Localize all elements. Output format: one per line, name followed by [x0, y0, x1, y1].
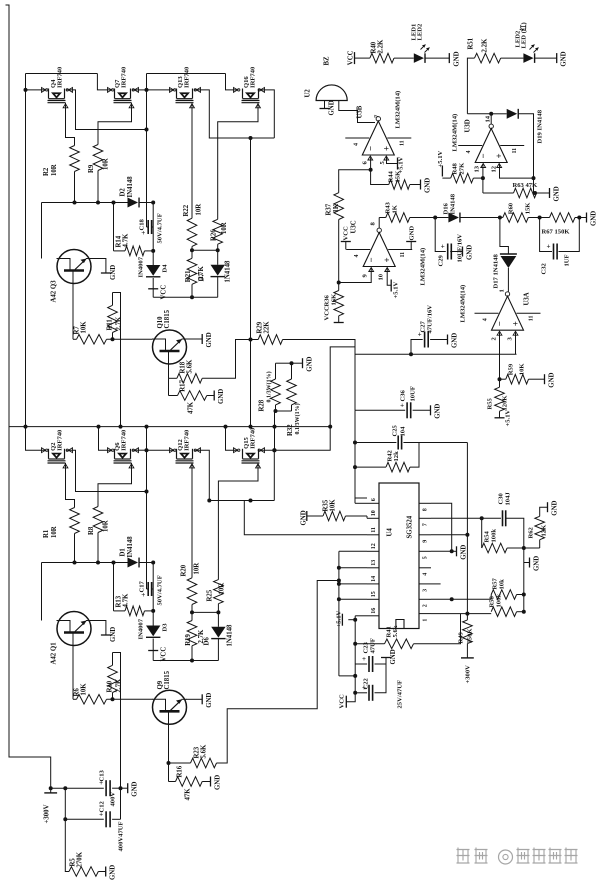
- svg-text:U3D: U3D: [465, 119, 472, 132]
- svg-text:R35: R35: [323, 499, 330, 511]
- resistor R1: [70, 508, 80, 534]
- svg-text:R62: R62: [528, 526, 535, 538]
- svg-text:GND: GND: [452, 333, 459, 348]
- resistor R35: [323, 511, 346, 521]
- svg-text:104: 104: [400, 426, 407, 437]
- svg-text:R26: R26: [211, 229, 218, 241]
- svg-text:C29: C29: [438, 254, 445, 266]
- resistor R25: [214, 580, 224, 604]
- wire pin8 gnd: [431, 503, 452, 551]
- svg-text:GND: GND: [301, 510, 308, 525]
- svg-text:C27: C27: [420, 320, 427, 332]
- diode D1: [128, 558, 139, 568]
- svg-text:10R: 10R: [221, 222, 228, 234]
- svg-text:GND: GND: [215, 775, 222, 790]
- wire pin5 gnd: [431, 550, 452, 552]
- op-amp U3B: [362, 121, 394, 155]
- ground R62: [540, 507, 548, 516]
- ground LED1: [448, 53, 450, 63]
- svg-text:D2: D2: [120, 188, 127, 197]
- wire Q12 gate: [191, 463, 193, 468]
- svg-text:C17: C17: [139, 580, 146, 592]
- svg-text:11: 11: [371, 527, 377, 533]
- svg-text:10R: 10R: [196, 204, 203, 216]
- wire U3A pin2: [499, 332, 501, 379]
- wire Q13 gate: [191, 103, 193, 109]
- power +5.1V R55: [499, 411, 501, 418]
- wire +300V node: [51, 787, 104, 789]
- svg-text:C30: C30: [498, 492, 505, 504]
- wire rail B to sense: [250, 138, 252, 340]
- svg-text:R57: R57: [492, 577, 499, 589]
- svg-text:GND: GND: [110, 627, 117, 642]
- svg-text:IRF740: IRF740: [184, 66, 191, 88]
- svg-text:R60: R60: [508, 202, 515, 214]
- svg-text:IRF740: IRF740: [184, 429, 191, 451]
- power +300V: [49, 786, 53, 790]
- svg-text:10K: 10K: [81, 321, 88, 334]
- svg-text:IRF740: IRF740: [57, 429, 64, 451]
- svg-text:27K: 27K: [459, 162, 466, 175]
- svg-text:12: 12: [371, 543, 377, 549]
- svg-text:10R: 10R: [219, 583, 226, 595]
- pin 8 U4: [419, 502, 431, 504]
- svg-text:10K: 10K: [81, 683, 88, 696]
- svg-text:4: 4: [423, 573, 429, 576]
- ground Q1: [101, 634, 111, 636]
- transistor Q2: [48, 449, 66, 463]
- power VCC R36: [338, 316, 340, 323]
- wire lower drain node ext: [209, 500, 225, 502]
- wire bootstrap rail: [152, 203, 154, 266]
- svg-text:IRF740: IRF740: [250, 427, 257, 449]
- svg-text:50V/4.7UF: 50V/4.7UF: [157, 575, 164, 605]
- svg-text:GND: GND: [453, 51, 460, 66]
- svg-text:GND: GND: [390, 649, 397, 664]
- svg-text:9: 9: [423, 540, 429, 543]
- svg-text:+: +: [400, 401, 404, 409]
- wire shunt to sense: [275, 347, 356, 450]
- svg-text:400V: 400V: [110, 792, 117, 807]
- wire Q1 emitter to gnd: [91, 621, 106, 636]
- svg-text:+: +: [511, 321, 521, 326]
- ground R5: [105, 867, 107, 877]
- svg-text:IRF740: IRF740: [121, 66, 128, 88]
- svg-text:D16: D16: [443, 202, 450, 214]
- wire U2 to U3B out: [339, 101, 375, 123]
- svg-text:R10: R10: [107, 680, 114, 692]
- capacitor C36: [355, 409, 405, 411]
- svg-text:R9: R9: [88, 164, 95, 173]
- transistor Q9: [153, 690, 187, 724]
- wire +5.1V column: [354, 620, 356, 693]
- ground R35: [307, 515, 323, 517]
- svg-text:IRF740: IRF740: [250, 66, 257, 88]
- wire Q2 drain: [67, 450, 147, 491]
- resistor R28: [271, 379, 281, 405]
- svg-text:10: 10: [378, 273, 385, 280]
- transistor Q3: [41, 203, 43, 259]
- resistor R6: [73, 698, 77, 700]
- svg-text:R1: R1: [43, 529, 50, 538]
- wire R18 to rail B: [202, 340, 250, 379]
- transistor Q10: [153, 330, 187, 364]
- wire Q6 gate: [131, 463, 133, 468]
- resistor R44: [389, 180, 410, 190]
- svg-text:+5.1V: +5.1V: [437, 151, 444, 168]
- svg-text:−: −: [495, 321, 505, 326]
- svg-text:A42 Q1: A42 Q1: [51, 642, 58, 665]
- svg-text:GND: GND: [435, 404, 442, 419]
- svg-text:11: 11: [400, 252, 406, 258]
- wire pin1 net: [431, 613, 467, 615]
- resistor R8: [93, 507, 103, 533]
- svg-text:+300V: +300V: [465, 665, 472, 684]
- svg-text:R59: R59: [508, 363, 515, 375]
- svg-text:R16: R16: [177, 765, 184, 777]
- svg-text:R40: R40: [371, 41, 378, 53]
- op-amp U3D: [475, 129, 507, 163]
- pin 14 U4: [367, 583, 379, 585]
- svg-text:R7: R7: [74, 326, 81, 335]
- svg-text:LM324M(14): LM324M(14): [460, 285, 467, 323]
- svg-text:47UF/16V: 47UF/16V: [427, 305, 434, 334]
- capacitor C27: [411, 340, 423, 355]
- ground R67: [579, 217, 586, 219]
- svg-text:R63 47K: R63 47K: [513, 182, 539, 189]
- pin 7 U4: [419, 517, 431, 519]
- ground Q10: [201, 334, 203, 344]
- wire pin2 net: [431, 598, 452, 600]
- pin 15 U4: [367, 598, 379, 600]
- svg-text:1K: 1K: [392, 204, 399, 213]
- op-amp U3C: [363, 233, 395, 267]
- svg-text:2.2K: 2.2K: [482, 38, 489, 52]
- svg-text:GND: GND: [534, 556, 541, 571]
- ground Q9: [201, 694, 203, 704]
- wire U3B pin5 +5.1V: [387, 157, 398, 164]
- resistor R57: [491, 590, 516, 600]
- resistor R20: [187, 578, 197, 605]
- wire Q7 source: [97, 74, 112, 90]
- svg-text:11: 11: [512, 148, 518, 154]
- resistor R26: [213, 219, 223, 244]
- capacitor C32: [540, 218, 552, 252]
- svg-text:GND: GND: [467, 245, 474, 260]
- svg-text:12: 12: [491, 165, 498, 172]
- svg-text:GND: GND: [461, 545, 468, 560]
- svg-text:16K: 16K: [331, 293, 338, 306]
- svg-text:LED2: LED2: [417, 23, 424, 41]
- svg-text:R22: R22: [183, 204, 190, 216]
- svg-text:R49: R49: [458, 631, 465, 643]
- svg-text:15K: 15K: [525, 202, 532, 215]
- wire VCC line lower block: [153, 660, 218, 662]
- svg-text:1N4148: 1N4148: [227, 624, 234, 647]
- svg-text:13: 13: [474, 165, 481, 172]
- wire half-bridge rail A lower: [146, 450, 148, 589]
- svg-text:GND: GND: [132, 782, 139, 797]
- IC U4 SG3524: [379, 483, 419, 629]
- svg-text:D4: D4: [162, 264, 169, 273]
- resistor R59: [500, 378, 506, 380]
- wire pin11 to drive: [226, 501, 368, 535]
- wire +300V feed rail left: [6, 4, 10, 6]
- svg-text:−: −: [366, 257, 376, 262]
- wire C12 return: [112, 818, 120, 820]
- svg-text:10R: 10R: [103, 520, 110, 532]
- diode D7: [217, 250, 219, 264]
- power VCC top block: [152, 278, 154, 297]
- ground LED2: [556, 53, 558, 63]
- svg-text:+: +: [547, 243, 551, 251]
- svg-text:+300V: +300V: [44, 804, 51, 823]
- wire R51 to U3D: [467, 113, 491, 115]
- svg-text:D1: D1: [120, 548, 127, 557]
- pin 12 U4: [367, 550, 379, 552]
- ground U3C: [410, 242, 412, 250]
- capacitor C22: [355, 692, 367, 694]
- svg-text:10K: 10K: [519, 363, 526, 376]
- svg-text:D7: D7: [199, 273, 206, 282]
- wire R11 top feed: [113, 293, 121, 427]
- wire shunt bottom bar: [275, 405, 277, 411]
- resistor R36: [334, 291, 344, 316]
- svg-text:4: 4: [466, 151, 472, 154]
- svg-text:+: +: [381, 146, 391, 151]
- wire left bus pins 12-15: [338, 551, 340, 676]
- svg-text:14: 14: [485, 115, 492, 122]
- wire R23 to SG3524: [217, 581, 339, 764]
- power VCC bottom: [346, 693, 355, 702]
- wire R10 top feed: [113, 653, 121, 789]
- transistor Q16: [242, 89, 260, 103]
- svg-text:11: 11: [399, 140, 405, 146]
- wire VCC line top block: [153, 296, 218, 298]
- svg-text:15: 15: [371, 591, 377, 597]
- svg-text:R20: R20: [181, 564, 188, 576]
- svg-text:+: +: [362, 655, 366, 663]
- diode D3: [146, 626, 160, 637]
- wire D19 cathode down: [518, 114, 534, 193]
- capacitor C25 net: [355, 442, 396, 444]
- svg-text:GND: GND: [425, 178, 432, 193]
- svg-text:R6: R6: [74, 688, 81, 697]
- svg-text:C1815: C1815: [164, 670, 171, 689]
- svg-text:GND: GND: [110, 865, 117, 880]
- wire Q16 source: [226, 74, 239, 90]
- resistor R60: [503, 213, 529, 223]
- wire D17 to U3A out: [507, 268, 509, 292]
- svg-text:R5: R5: [70, 858, 77, 867]
- pin 16 U4: [367, 615, 379, 617]
- transistor Q12: [176, 449, 194, 463]
- svg-text:13: 13: [371, 560, 377, 566]
- resistor R7: [73, 338, 77, 340]
- svg-text:R18: R18: [180, 361, 187, 373]
- resistor R22: [187, 218, 197, 246]
- resistor R17: [168, 378, 170, 395]
- ground R16: [202, 781, 210, 783]
- resistor R43: [379, 217, 386, 219]
- svg-text:7: 7: [423, 523, 429, 526]
- svg-text:2.7K: 2.7K: [116, 316, 123, 330]
- wire to Q10 base: [107, 338, 153, 340]
- wire C12 branch: [65, 788, 104, 819]
- svg-text:D19 IN4148: D19 IN4148: [537, 109, 544, 143]
- svg-text:VCC: VCC: [161, 285, 168, 300]
- LED LED2: [501, 57, 524, 59]
- pin 4 U4: [419, 567, 431, 569]
- wire pin3 stub: [431, 583, 441, 585]
- wire Q6 drain: [133, 449, 147, 451]
- wire to Q9 base: [107, 698, 153, 700]
- wire Q13 source: [147, 89, 175, 91]
- wire current sense bus: [10, 426, 331, 428]
- svg-text:IN4148: IN4148: [450, 193, 457, 214]
- wire Q2 gate: [65, 463, 67, 468]
- resistor R29: [251, 339, 259, 341]
- wire Q10 emitter gnd: [187, 338, 203, 340]
- capacitor C13: [105, 780, 107, 796]
- capacitor C18: [147, 226, 149, 228]
- ground shunt: [302, 358, 304, 368]
- svg-text:47UF: 47UF: [370, 638, 377, 653]
- pin 9 U4: [419, 534, 431, 536]
- wire source rail x=25: [25, 74, 27, 427]
- ground R59: [544, 374, 546, 384]
- svg-text:0.1/3W(1%): 0.1/3W(1%): [266, 371, 273, 402]
- svg-text:1UF: 1UF: [564, 254, 571, 266]
- resistor R5: [65, 819, 69, 871]
- transistor Q13: [176, 89, 194, 103]
- svg-text:R37: R37: [326, 203, 333, 215]
- svg-text:22K: 22K: [264, 321, 271, 334]
- svg-text:10R: 10R: [194, 563, 201, 575]
- svg-text:BZ: BZ: [324, 56, 331, 66]
- capacitor C29: [435, 218, 446, 252]
- power VCC U3C: [345, 242, 347, 250]
- wire U3B pin6: [370, 157, 372, 170]
- svg-text:1N4148: 1N4148: [225, 260, 232, 283]
- pin 5 U4: [419, 550, 431, 552]
- svg-text:GND: GND: [554, 186, 561, 201]
- wire pin9 to comp: [431, 534, 467, 536]
- power VCC lower block: [152, 639, 154, 661]
- LED LED1: [394, 57, 414, 59]
- svg-text:Q9: Q9: [157, 680, 164, 689]
- svg-text:C13: C13: [99, 769, 106, 781]
- wire Q9 collector: [168, 724, 170, 763]
- transistor Q4: [48, 89, 66, 103]
- svg-text:2.2K: 2.2K: [378, 39, 385, 53]
- ground U2: [320, 108, 330, 110]
- transistor Q15: [242, 449, 260, 463]
- svg-text:VCC: VCC: [324, 306, 331, 321]
- svg-text:25V/47UF: 25V/47UF: [397, 680, 404, 709]
- wire U3A pin3: [515, 332, 517, 354]
- svg-text:R44: R44: [388, 170, 395, 182]
- svg-text:11: 11: [529, 316, 535, 322]
- svg-text:47K: 47K: [188, 401, 195, 414]
- ground C27: [447, 335, 449, 345]
- ground R17: [207, 395, 214, 397]
- wire Q4 drain: [67, 90, 147, 130]
- pin 10 U4: [367, 517, 379, 519]
- svg-text:D17 1N4148: D17 1N4148: [493, 254, 500, 289]
- resistor R62: [535, 516, 545, 539]
- svg-text:VCC: VCC: [161, 647, 168, 662]
- svg-text:R21: R21: [185, 270, 192, 282]
- resistor R32: [287, 379, 297, 405]
- svg-text:R23: R23: [194, 746, 201, 758]
- diode D17: [500, 218, 509, 255]
- svg-text:3: 3: [423, 589, 429, 592]
- resistor R10: [112, 653, 114, 666]
- svg-text:R25: R25: [207, 589, 214, 601]
- svg-text:R17: R17: [180, 379, 187, 391]
- wire pin16 +5.1V: [355, 615, 367, 617]
- svg-text:GND: GND: [591, 211, 598, 226]
- svg-text:100k: 100k: [496, 594, 503, 608]
- svg-text:10UF: 10UF: [410, 386, 417, 401]
- ground pins 5 8: [456, 546, 458, 556]
- wire R22 R26 junction: [191, 246, 193, 250]
- svg-text:A42 Q3: A42 Q3: [51, 280, 58, 303]
- wire Q3 emitter to gnd: [91, 259, 106, 274]
- svg-text:10R: 10R: [103, 158, 110, 170]
- svg-text:−: −: [365, 146, 375, 151]
- svg-text:R14: R14: [116, 235, 123, 247]
- resistor R9: [93, 145, 103, 171]
- svg-text:8: 8: [423, 508, 429, 511]
- svg-text:0.1/3W(1%): 0.1/3W(1%): [294, 403, 301, 434]
- power VCC LED1: [354, 52, 356, 64]
- svg-text:GND: GND: [329, 100, 336, 115]
- capacitor C12: [105, 811, 107, 827]
- resistor R11: [112, 293, 114, 306]
- resistor R49: [466, 614, 468, 620]
- resistor R67: [550, 213, 576, 223]
- ground C36: [430, 405, 432, 415]
- svg-text:270K: 270K: [77, 851, 84, 867]
- svg-text:C1815: C1815: [164, 309, 171, 328]
- svg-text:1: 1: [423, 619, 429, 622]
- svg-text:IN4148: IN4148: [127, 536, 134, 558]
- resistor R21: [191, 250, 193, 258]
- svg-text:2.7K: 2.7K: [116, 678, 123, 692]
- svg-text:U2: U2: [305, 89, 312, 98]
- svg-text:2: 2: [423, 604, 429, 607]
- resistor R51: [467, 58, 474, 114]
- diode D4: [146, 265, 160, 276]
- svg-text:R54: R54: [484, 530, 491, 542]
- svg-text:47K: 47K: [185, 788, 192, 801]
- wire R44 branch: [371, 170, 389, 185]
- svg-text:C32: C32: [541, 262, 548, 274]
- svg-text:5.6K: 5.6K: [201, 744, 208, 758]
- svg-text:IN4007: IN4007: [138, 256, 145, 277]
- svg-text:100k: 100k: [491, 529, 498, 543]
- svg-text:6: 6: [371, 498, 377, 501]
- ground R63: [549, 188, 551, 198]
- svg-text:VCC: VCC: [343, 226, 350, 241]
- wire Q7 drain: [133, 89, 147, 91]
- watermark: [457, 848, 470, 864]
- wire R20 R25 junction: [191, 605, 193, 613]
- svg-text:R43: R43: [385, 201, 392, 213]
- svg-text:GND: GND: [409, 226, 416, 241]
